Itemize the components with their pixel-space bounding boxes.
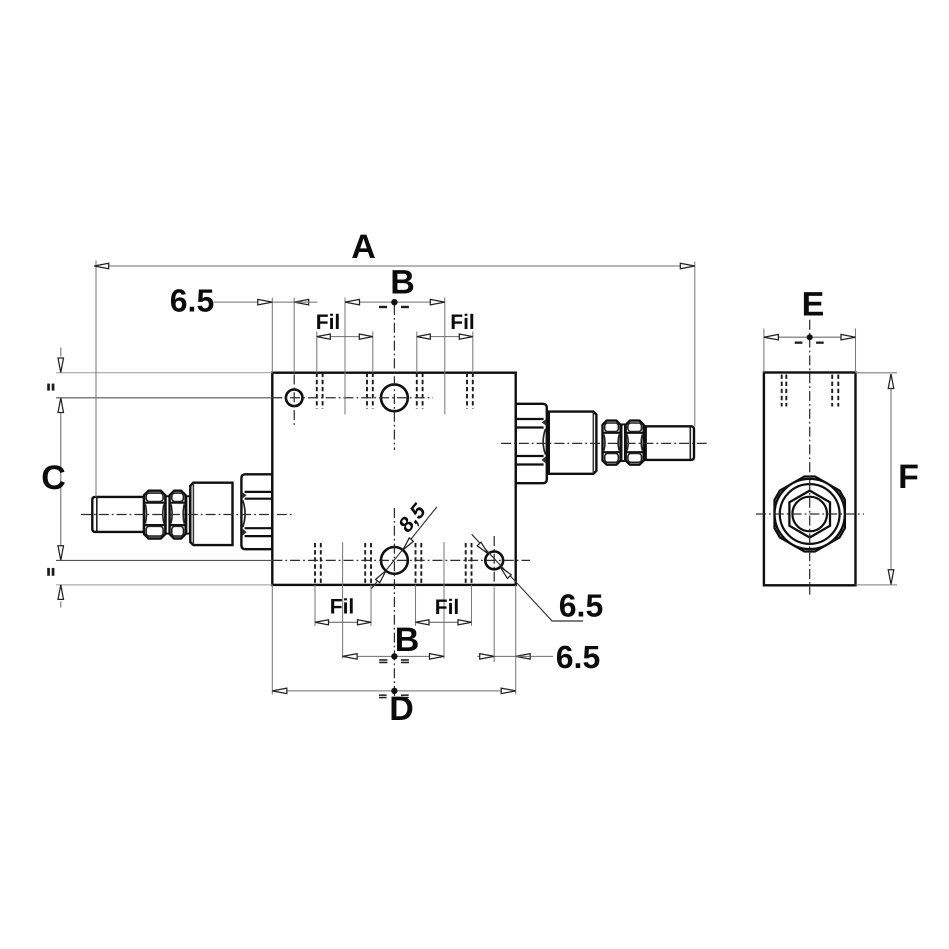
left fitting lock nut 2 [170, 491, 186, 539]
leader line 8.5 diameter [372, 507, 437, 589]
extension line A right [694, 262, 696, 427]
label E [802, 286, 825, 324]
left fitting lock nut 1 [144, 491, 165, 539]
svg-text:6.5: 6.5 [559, 588, 603, 624]
svg-text:Fil: Fil [435, 596, 460, 619]
valve block front view outline [272, 373, 515, 585]
centerline top-left hole vertical [293, 375, 295, 428]
extension line A left [95, 261, 97, 498]
extension line block right edge down [515, 585, 517, 695]
label B bottom [395, 621, 420, 659]
extension line block left edge up [271, 298, 273, 373]
dimension line 6.5 top-left [214, 299, 318, 305]
extension line Fil top-right b [472, 332, 474, 373]
left fitting spring housing cylinder [190, 483, 232, 545]
extension line E right [855, 329, 857, 373]
svg-text:B: B [390, 264, 415, 302]
extension line Fil top-right a [416, 332, 418, 373]
leader line 6.5 hole [472, 534, 583, 621]
label Fil bottom-left [330, 596, 355, 619]
extension line F bottom [856, 584, 898, 586]
plug bore circle [792, 497, 827, 532]
dimension line 6.5 bottom-right [477, 654, 553, 660]
extension line top hole row left [56, 397, 272, 399]
extension line Fil top-left b [372, 332, 374, 373]
centerline bottom-right hole vertical [493, 536, 495, 589]
right fitting spring housing cylinder [549, 412, 597, 474]
label Fil bottom-right [435, 596, 460, 619]
dimension line Fil top-right [417, 334, 473, 339]
svg-text:A: A [351, 228, 376, 266]
svg-text:F: F [898, 458, 919, 496]
svg-text:6.5: 6.5 [556, 639, 600, 675]
extension line Fil bottom-left b [370, 585, 372, 626]
label 6.5 bottom-right [556, 639, 600, 675]
centerline top hole row [272, 397, 433, 399]
dimension line B top [345, 299, 445, 308]
right fitting hex body [516, 404, 547, 483]
right fitting lock nut 1 [603, 421, 621, 465]
plug chamfer circle outer [775, 479, 845, 549]
port hole top-center [381, 384, 408, 411]
centerline plug horizontal [756, 513, 864, 515]
hidden thread lines of top side ports [317, 373, 473, 409]
mounting hole top-left [286, 390, 303, 407]
dimension line C with tick marks [47, 348, 63, 608]
extension line block left edge down [271, 585, 273, 695]
centerline bottom hole row [272, 559, 530, 561]
label 8,5 [394, 500, 431, 537]
left fitting washer 1 [166, 496, 170, 533]
svg-text:C: C [41, 459, 66, 497]
plug chamfer circle inner [780, 484, 840, 544]
centerline bottom-center hole vertical [393, 508, 395, 700]
right fitting washer [622, 424, 625, 461]
extension line Fil bottom-left a [314, 585, 316, 626]
label B top [390, 264, 415, 302]
left fitting hex body [241, 474, 272, 549]
centerline left fitting [81, 514, 293, 516]
label F [898, 458, 919, 496]
plug outer hexagon [775, 477, 845, 552]
left fitting adjustment stem [92, 497, 144, 532]
extension line top-left hole up [293, 298, 295, 373]
label C [41, 459, 66, 497]
plug socket hexagon [789, 491, 830, 538]
right fitting lock nut 2 [626, 421, 644, 465]
dimension line A [94, 263, 695, 269]
valve block side view outline [764, 373, 856, 586]
extension line Fil bottom-right a [415, 585, 417, 626]
left fitting washer 2 [186, 496, 189, 533]
dimension line Fil bottom-right [416, 620, 472, 625]
hidden thread lines of bottom side ports [315, 543, 472, 584]
extension line B bottom left [342, 542, 344, 659]
extension line Fil top-left a [316, 332, 318, 373]
dimension line D [272, 688, 515, 699]
label Fil top-right [450, 311, 475, 334]
extension line bottom hole row left [56, 559, 272, 561]
extension line Fil bottom-right b [471, 585, 473, 626]
extension line block bottom edge left [56, 584, 272, 586]
extension line E left [763, 329, 765, 373]
svg-text:6.5: 6.5 [170, 282, 214, 318]
right fitting adjustment stem [646, 426, 694, 460]
dimension line Fil bottom-left [315, 620, 371, 625]
hidden port lines side view [782, 375, 839, 407]
label 6.5 top-left [170, 282, 214, 318]
svg-text:E: E [802, 286, 825, 324]
extension line B top right [444, 298, 446, 415]
dimension line Fil top-left [317, 334, 373, 339]
centerline top-center hole vertical [393, 305, 395, 450]
label Fil top-left [316, 311, 341, 334]
svg-text:D: D [389, 690, 414, 728]
extension line B bottom right [443, 542, 445, 659]
extension line F top [856, 372, 898, 374]
svg-text:B: B [395, 621, 420, 659]
mounting hole bottom-right (6.5) [485, 552, 503, 570]
port hole bottom-center (8.5) [381, 547, 408, 574]
dimension line F [888, 374, 894, 584]
centerline right fitting [501, 442, 707, 444]
svg-text:Fil: Fil [316, 311, 341, 334]
svg-text:Fil: Fil [450, 311, 475, 334]
dimension line E [764, 334, 856, 344]
extension line block top edge left [56, 372, 272, 374]
label D [389, 690, 414, 728]
extension line B top left [344, 298, 346, 415]
centerline side view vertical [809, 320, 811, 595]
label A [351, 228, 376, 266]
extension line bottom-right hole down [493, 588, 495, 663]
dimension line B bottom [343, 653, 444, 663]
label 6.5 leader [559, 588, 603, 624]
svg-text:Fil: Fil [330, 596, 355, 619]
